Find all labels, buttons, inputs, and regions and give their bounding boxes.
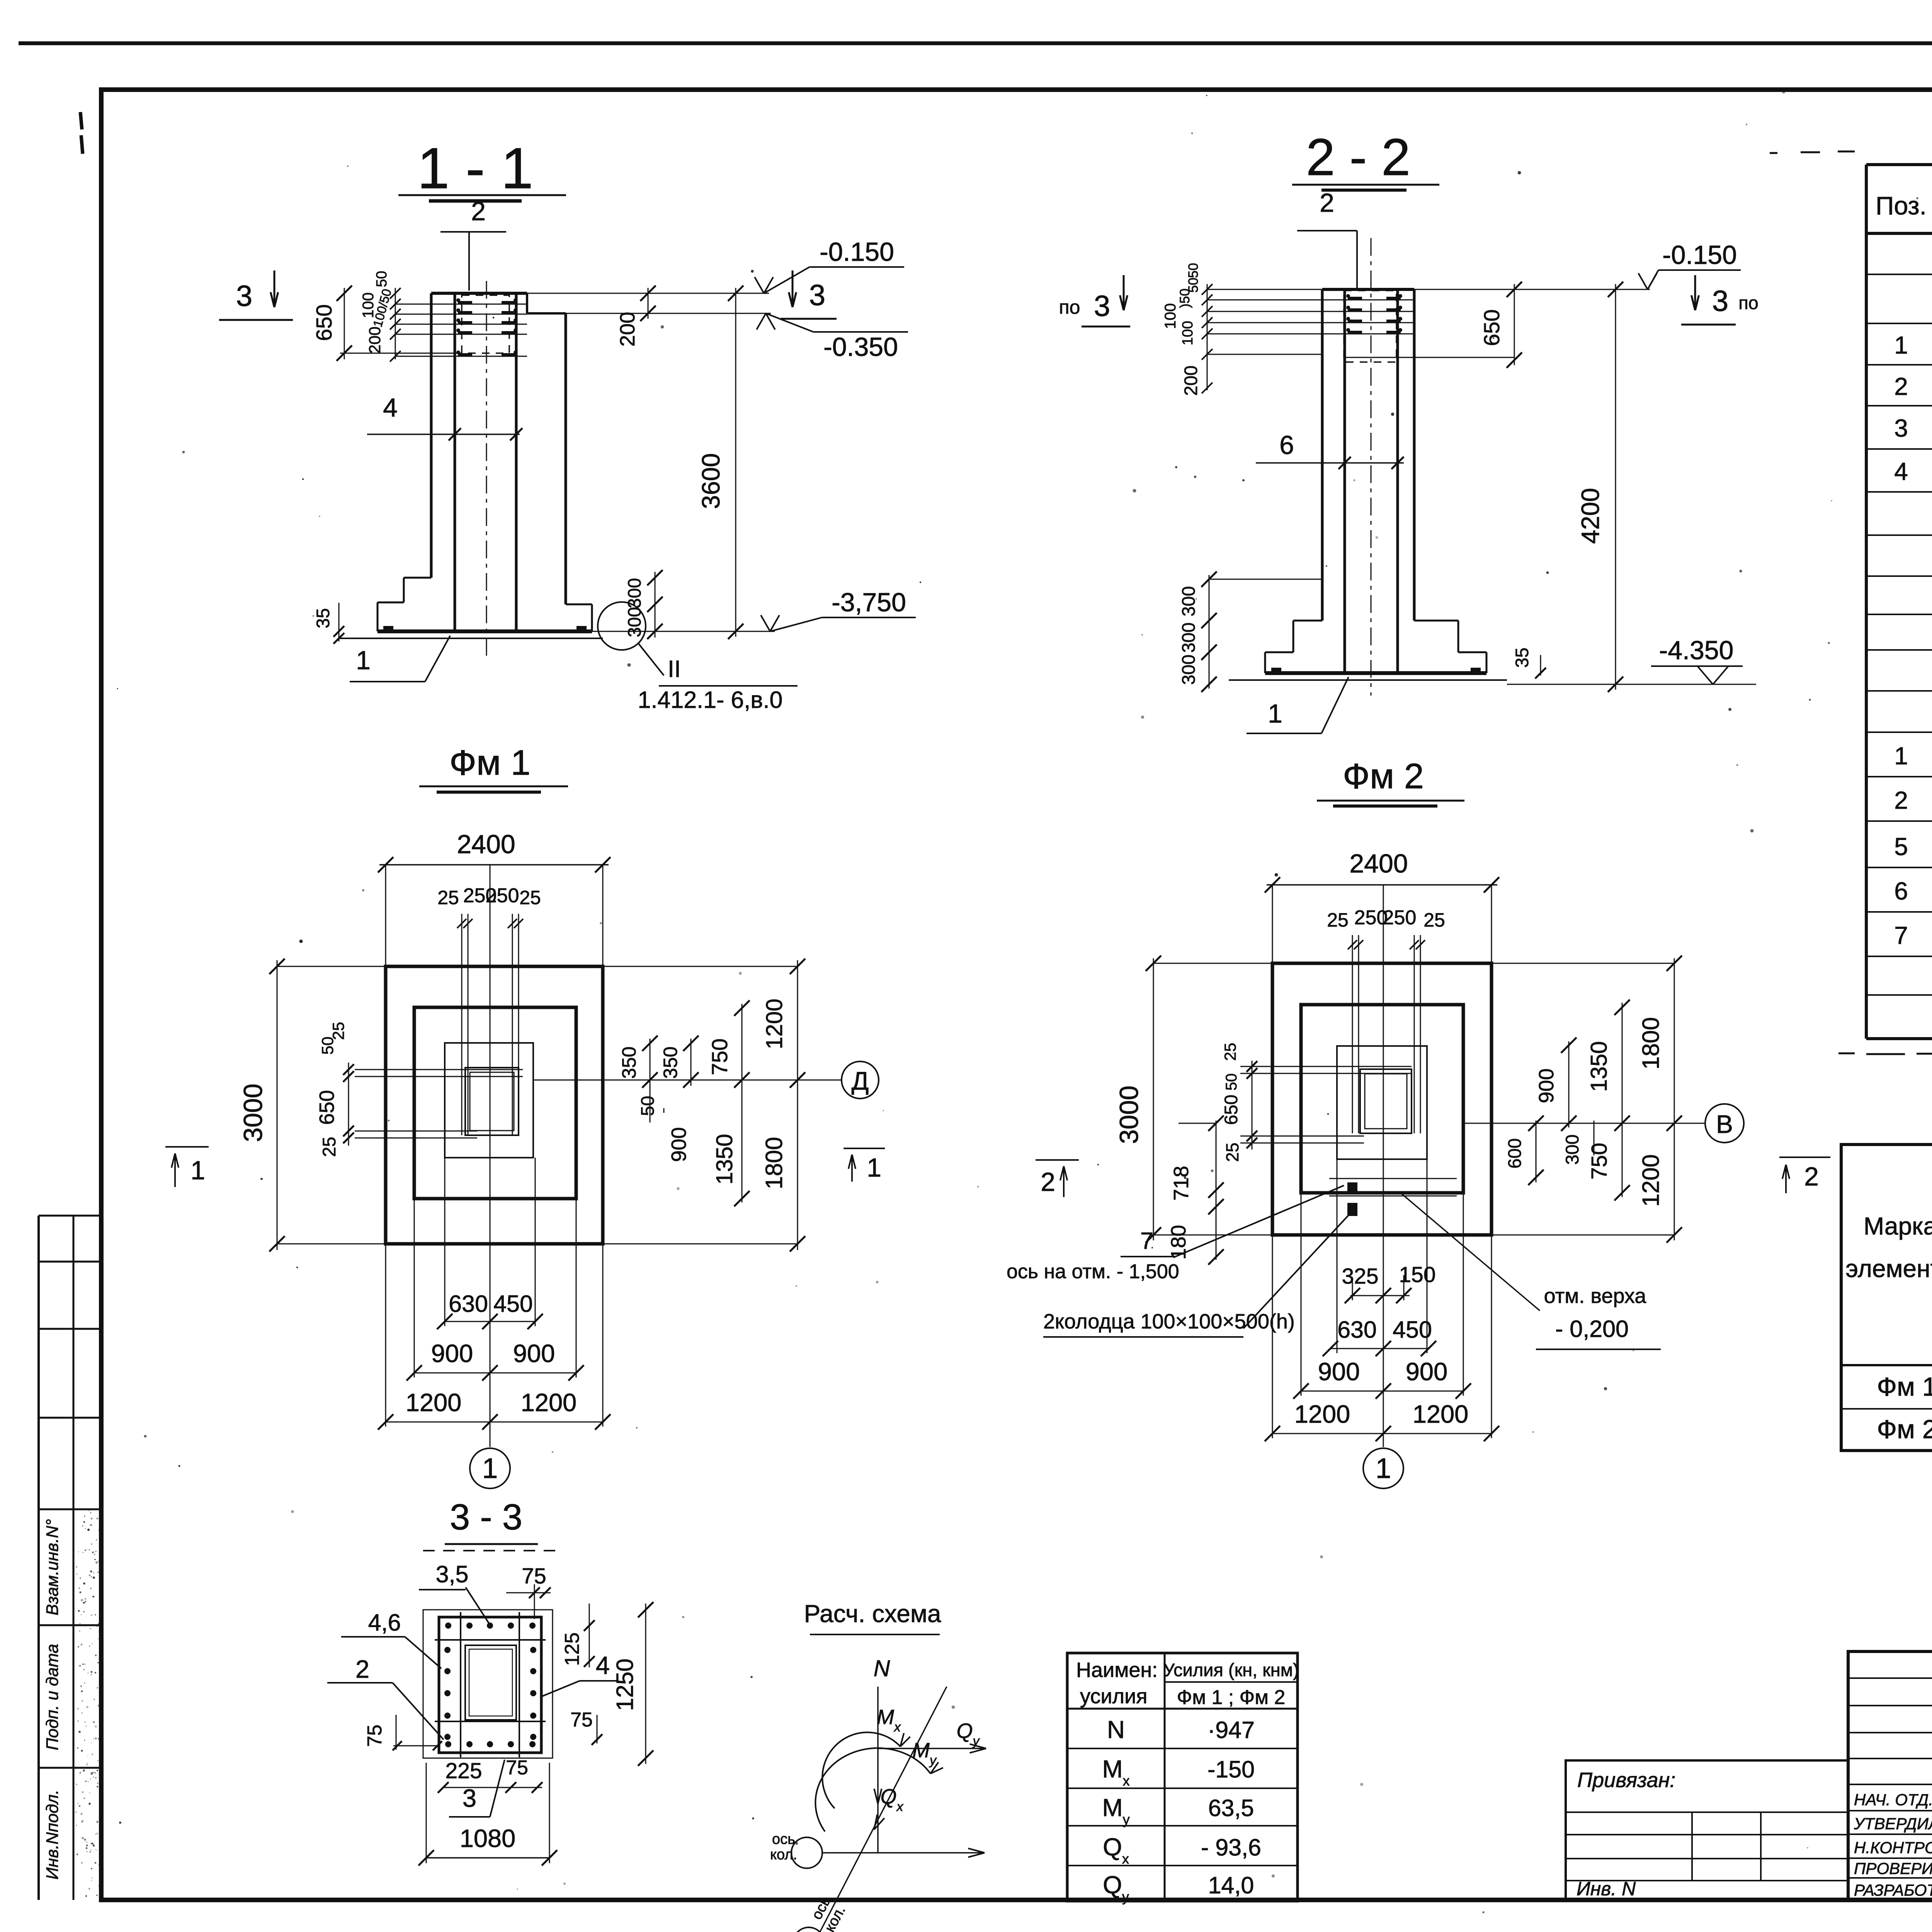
- svg-text:75: 75: [570, 1709, 593, 1731]
- svg-text:3000: 3000: [238, 1083, 268, 1142]
- svg-text:1: 1: [190, 1156, 205, 1185]
- svg-text:Инв. N: Инв. N: [1577, 1878, 1636, 1900]
- svg-text:5: 5: [1894, 833, 1908, 861]
- svg-text:450: 450: [493, 1291, 533, 1317]
- svg-text:225: 225: [445, 1759, 482, 1783]
- svg-text:7: 7: [1894, 922, 1908, 949]
- svg-text:1080: 1080: [460, 1824, 516, 1852]
- svg-text:900: 900: [1406, 1357, 1447, 1386]
- svg-text:Поз.: Поз.: [1876, 191, 1927, 220]
- svg-text:100: 100: [1180, 321, 1196, 345]
- svg-text:2: 2: [1894, 786, 1908, 814]
- svg-text:1: 1: [1894, 742, 1908, 770]
- svg-text:300: 300: [1562, 1134, 1582, 1165]
- svg-text:650: 650: [1221, 1095, 1241, 1125]
- svg-text:3: 3: [1094, 290, 1110, 323]
- svg-text:6: 6: [1894, 877, 1908, 905]
- svg-text:Фм 1: Фм 1: [1877, 1372, 1932, 1401]
- svg-text:2: 2: [355, 1655, 369, 1683]
- svg-text:4: 4: [596, 1651, 610, 1679]
- svg-text:НАЧ. ОТД.: НАЧ. ОТД.: [1854, 1791, 1932, 1809]
- svg-text:200: 200: [616, 312, 639, 347]
- svg-text:150: 150: [1399, 1262, 1435, 1287]
- svg-text:750: 750: [707, 1038, 732, 1075]
- svg-text:по: по: [1059, 296, 1080, 318]
- svg-text:N: N: [1107, 1716, 1125, 1743]
- svg-text:II: II: [668, 656, 681, 682]
- svg-text:25: 25: [1327, 909, 1349, 931]
- svg-text:63,5: 63,5: [1208, 1795, 1254, 1821]
- svg-text:350: 350: [618, 1046, 640, 1078]
- svg-text:отм. верха: отм. верха: [1544, 1284, 1647, 1308]
- svg-text:1800: 1800: [761, 1137, 787, 1189]
- svg-text:900: 900: [513, 1339, 555, 1367]
- svg-text:2: 2: [1804, 1162, 1819, 1191]
- svg-text:Фм 2: Фм 2: [1343, 757, 1424, 796]
- svg-text:2 - 2: 2 - 2: [1306, 128, 1410, 186]
- svg-text:25: 25: [1221, 1043, 1239, 1061]
- svg-text:300: 300: [1178, 586, 1199, 616]
- svg-text:75: 75: [506, 1757, 528, 1779]
- svg-text:750: 750: [1587, 1143, 1612, 1179]
- svg-text:630: 630: [449, 1291, 488, 1317]
- svg-text:3,5: 3,5: [436, 1561, 469, 1587]
- svg-text:35: 35: [1512, 648, 1532, 668]
- svg-text:3: 3: [463, 1784, 476, 1812]
- svg-text:РАЗРАБОТАЛ: РАЗРАБОТАЛ: [1854, 1881, 1932, 1899]
- svg-text:125: 125: [561, 1633, 583, 1666]
- svg-text:75: 75: [364, 1725, 386, 1747]
- svg-text:900: 900: [1318, 1357, 1360, 1386]
- svg-text:-0.150: -0.150: [820, 237, 894, 267]
- svg-text:50: 50: [374, 271, 390, 287]
- svg-text:Марка: Марка: [1864, 1212, 1932, 1240]
- svg-text:·947: ·947: [1207, 1717, 1255, 1743]
- svg-text:Фм 1 ; Фм 2: Фм 1 ; Фм 2: [1177, 1686, 1286, 1709]
- svg-text:600: 600: [1504, 1138, 1525, 1168]
- svg-text:Подп. и дата: Подп. и дата: [43, 1644, 62, 1750]
- svg-text:1200: 1200: [406, 1388, 462, 1417]
- svg-text:1: 1: [867, 1153, 881, 1182]
- svg-text:ось на отм. - 1,500: ось на отм. - 1,500: [1007, 1260, 1179, 1283]
- svg-text:2: 2: [1041, 1167, 1055, 1197]
- svg-text:50: 50: [1223, 1073, 1240, 1091]
- svg-text:300: 300: [1178, 622, 1199, 653]
- svg-text:25: 25: [319, 1137, 339, 1157]
- svg-text:2400: 2400: [457, 830, 515, 859]
- svg-text:-4.350: -4.350: [1659, 636, 1734, 665]
- svg-text:1: 1: [1894, 331, 1908, 359]
- svg-text:2: 2: [471, 197, 486, 226]
- svg-text:-3,750: -3,750: [832, 588, 906, 617]
- svg-text:450: 450: [1393, 1316, 1432, 1343]
- svg-text:630: 630: [1337, 1316, 1377, 1343]
- svg-text:25: 25: [519, 887, 541, 908]
- svg-text:250: 250: [1383, 906, 1417, 929]
- svg-text:3000: 3000: [1114, 1085, 1144, 1144]
- svg-text:25: 25: [1223, 1143, 1242, 1162]
- svg-text:1350: 1350: [1586, 1041, 1612, 1092]
- svg-text:1 - 1: 1 - 1: [417, 136, 533, 201]
- svg-text:Фм 2: Фм 2: [1877, 1415, 1932, 1444]
- svg-text:1350: 1350: [712, 1134, 737, 1184]
- svg-text:900: 900: [431, 1339, 473, 1367]
- svg-text:Инв.Nподл.: Инв.Nподл.: [43, 1790, 62, 1880]
- svg-text:2: 2: [1894, 372, 1908, 400]
- svg-text:ПРОВЕРИЛ: ПРОВЕРИЛ: [1854, 1859, 1932, 1878]
- svg-text:-150: -150: [1207, 1756, 1255, 1782]
- svg-text:1: 1: [356, 646, 371, 675]
- svg-text:25: 25: [329, 1022, 347, 1040]
- svg-text:1200: 1200: [1413, 1400, 1469, 1428]
- svg-text:Н.КОНТРОЛЬ: Н.КОНТРОЛЬ: [1854, 1838, 1932, 1857]
- svg-text:Привязан:: Привязан:: [1577, 1769, 1675, 1792]
- svg-text:Д: Д: [852, 1066, 869, 1095]
- svg-text:Взам.инв.N°: Взам.инв.N°: [43, 1519, 62, 1615]
- svg-text:1800: 1800: [1638, 1017, 1664, 1070]
- svg-text:Наимен:: Наимен:: [1076, 1658, 1158, 1682]
- svg-text:100: 100: [1162, 303, 1179, 329]
- svg-text:650: 650: [312, 304, 337, 341]
- svg-text:1.412.1- 6,в.0: 1.412.1- 6,в.0: [638, 687, 783, 713]
- svg-text:усилия: усилия: [1080, 1685, 1147, 1708]
- svg-text:Расч. схема: Расч. схема: [804, 1600, 941, 1628]
- svg-text:300: 300: [1178, 655, 1199, 685]
- svg-text:3: 3: [1894, 414, 1908, 442]
- svg-text:25: 25: [437, 887, 459, 908]
- svg-text:4,6: 4,6: [368, 1609, 401, 1636]
- svg-text:3: 3: [809, 279, 825, 312]
- svg-text:- 93,6: - 93,6: [1201, 1834, 1261, 1861]
- svg-text:1200: 1200: [762, 998, 787, 1049]
- svg-text:Усилия (кн, кнм): Усилия (кн, кнм): [1163, 1660, 1299, 1680]
- svg-text:900: 900: [1535, 1068, 1558, 1103]
- svg-text:325: 325: [1342, 1264, 1378, 1289]
- svg-text:1: 1: [1268, 699, 1282, 728]
- svg-text:50: 50: [1186, 263, 1201, 278]
- svg-text:1250: 1250: [612, 1658, 638, 1711]
- svg-text:4: 4: [383, 393, 398, 422]
- svg-text:200: 200: [366, 327, 384, 354]
- svg-text:35: 35: [313, 608, 333, 628]
- svg-text:718: 718: [1170, 1166, 1193, 1201]
- svg-text:N: N: [874, 1656, 890, 1681]
- svg-text:300: 300: [624, 578, 645, 608]
- svg-text:650: 650: [1480, 309, 1504, 346]
- svg-text:25: 25: [1423, 909, 1445, 931]
- svg-text:14,0: 14,0: [1208, 1872, 1254, 1898]
- svg-text:- 0,200: - 0,200: [1555, 1316, 1629, 1342]
- svg-text:3: 3: [236, 280, 252, 313]
- svg-text:50: 50: [637, 1096, 658, 1116]
- svg-text:4200: 4200: [1576, 488, 1604, 544]
- svg-text:2400: 2400: [1349, 849, 1408, 878]
- svg-text:-0.350: -0.350: [823, 332, 898, 362]
- svg-text:-0.150: -0.150: [1662, 240, 1737, 270]
- svg-text:7: 7: [1140, 1228, 1153, 1254]
- svg-text:кол.: кол.: [770, 1847, 797, 1863]
- svg-text:1200: 1200: [1638, 1154, 1664, 1207]
- svg-text:1: 1: [482, 1453, 498, 1484]
- svg-text:Фм 1: Фм 1: [449, 743, 531, 782]
- svg-text:1200: 1200: [521, 1388, 577, 1417]
- svg-text:2: 2: [1320, 188, 1334, 218]
- svg-text:650: 650: [315, 1090, 338, 1125]
- svg-text:элемента: элемента: [1845, 1255, 1932, 1282]
- svg-text:1200: 1200: [1294, 1400, 1350, 1428]
- svg-text:350: 350: [660, 1046, 681, 1078]
- svg-text:4: 4: [1894, 457, 1908, 485]
- svg-text:900: 900: [667, 1127, 690, 1162]
- svg-text:200: 200: [1180, 366, 1201, 396]
- svg-text:по: по: [1738, 293, 1759, 313]
- svg-text:3 - 3: 3 - 3: [450, 1497, 522, 1537]
- svg-text:6: 6: [1279, 430, 1294, 460]
- svg-text:ось: ось: [772, 1831, 795, 1847]
- svg-text:250: 250: [486, 884, 519, 907]
- svg-text:3600: 3600: [697, 453, 725, 509]
- svg-text:1: 1: [1376, 1453, 1391, 1484]
- svg-text:3: 3: [1712, 285, 1728, 318]
- svg-text:УТВЕРДИЛ: УТВЕРДИЛ: [1854, 1815, 1932, 1833]
- svg-text:В: В: [1716, 1110, 1733, 1138]
- svg-text:)50: )50: [1177, 289, 1192, 308]
